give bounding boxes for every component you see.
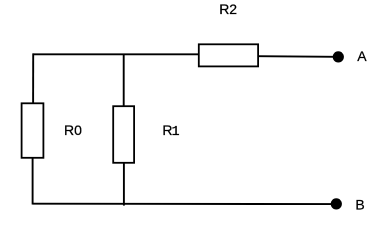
wire left vertical lower (R0 to bottom wire) xyxy=(32,158,34,205)
wire R2 to node A xyxy=(258,55,335,58)
resistor R0 xyxy=(22,103,44,158)
svg-text:R1: R1 xyxy=(162,122,179,140)
svg-text:R2: R2 xyxy=(219,1,237,17)
wire R1 vertical lower (R1 to bottom wire, small stub past junction) xyxy=(123,163,125,206)
wire bottom horizontal (to node B) xyxy=(33,203,335,205)
node B terminal dot xyxy=(331,198,342,209)
resistor R2 xyxy=(199,44,258,66)
wire top horizontal (node to R2) xyxy=(33,53,199,55)
wire left vertical upper (top wire to R0) xyxy=(32,53,34,103)
svg-text:A: A xyxy=(357,48,367,64)
wire R1 vertical upper (top wire to R1) xyxy=(123,54,125,106)
node A terminal dot xyxy=(333,51,344,62)
resistor R1 xyxy=(113,106,134,163)
svg-text:B: B xyxy=(355,197,364,213)
svg-text:R0: R0 xyxy=(64,122,82,138)
